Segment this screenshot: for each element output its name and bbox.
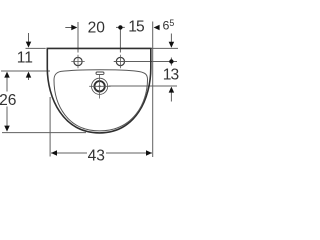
svg-text:43: 43 xyxy=(88,148,105,165)
svg-text:13: 13 xyxy=(163,67,179,84)
svg-text:11: 11 xyxy=(17,49,33,66)
svg-text:20: 20 xyxy=(88,20,106,37)
svg-text:15: 15 xyxy=(128,19,145,36)
svg-text:26: 26 xyxy=(0,92,16,109)
